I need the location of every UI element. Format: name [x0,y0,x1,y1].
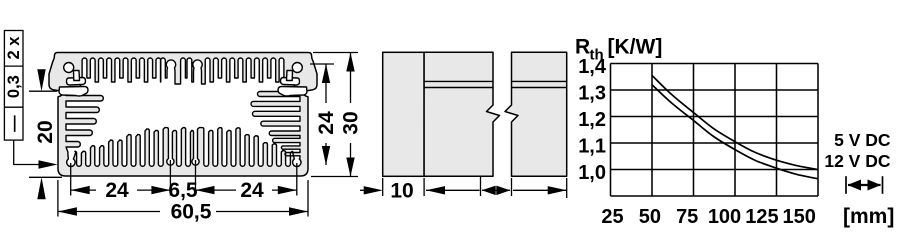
svg-text:1,0: 1,0 [578,162,606,184]
svg-text:24: 24 [240,179,264,202]
svg-text:1,2: 1,2 [578,109,606,131]
svg-text:30: 30 [340,111,363,134]
dimension 20 left [29,90,57,92]
svg-text:[K/W]: [K/W] [608,36,663,59]
svg-text:1,1: 1,1 [578,136,606,158]
svg-text:2 x: 2 x [5,36,23,60]
svg-text:[mm]: [mm] [843,205,894,228]
curve 12 V DC [652,85,818,179]
heatsink cross-section profile [49,53,317,177]
svg-text:5 V DC: 5 V DC [834,130,891,150]
curve 5 V DC [652,75,818,169]
svg-text:150: 150 [783,206,816,228]
side view block B with break [424,52,499,176]
svg-text:75: 75 [676,206,698,228]
dimension 30 right [350,53,352,104]
top-left clip hook cavity [59,63,88,97]
svg-text:6,5: 6,5 [168,179,198,202]
svg-text:25: 25 [601,206,623,228]
top-right clip hook cavity [278,63,307,97]
svg-text:100: 100 [708,206,741,228]
svg-text:R: R [575,36,590,59]
svg-text:60,5: 60,5 [171,201,212,224]
side view block C with break [505,52,567,176]
svg-text:24: 24 [315,111,338,135]
straightness tolerance box 0,3 / 2x [4,31,23,141]
dimensions 24 / 6,5 / 24 bottom [70,163,72,196]
svg-text:24: 24 [105,179,129,202]
svg-text:10: 10 [390,179,413,202]
dimension 24 right [313,52,358,54]
svg-text:1,4: 1,4 [578,56,607,78]
svg-text:12 V DC: 12 V DC [824,151,890,171]
svg-text:—: — [5,115,23,132]
dimension 60,5 [57,180,59,217]
profile interior cavity with fins [66,58,301,166]
svg-text:50: 50 [639,206,661,228]
svg-text:20: 20 [34,120,57,143]
tolerance leader arrow [14,140,50,164]
svg-text:0,3: 0,3 [5,75,23,98]
svg-text:1,3: 1,3 [578,83,606,105]
groove lines [424,80,493,82]
svg-text:125: 125 [745,206,778,228]
variable length symbol [480,176,482,196]
side view block A (10mm) [383,52,424,176]
dimension 10 [382,178,384,196]
variable length arrow symbol [845,176,847,194]
graph grid [611,64,819,197]
